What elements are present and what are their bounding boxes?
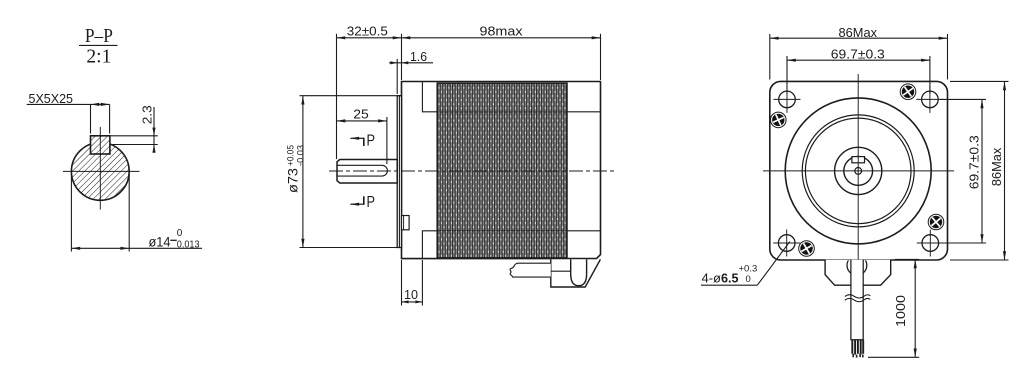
motor body outline	[402, 82, 601, 259]
raised ring inner	[805, 118, 911, 224]
section title fraction line	[79, 44, 118, 46]
svg-text:0.013: 0.013	[177, 240, 200, 251]
svg-text:P: P	[367, 133, 376, 150]
ext lines 86 right	[950, 80, 1009, 82]
ext line body rear	[600, 34, 602, 80]
dim 69.7 right arrows	[980, 99, 983, 108]
svg-text:2:1: 2:1	[86, 46, 111, 68]
dim 10 line	[402, 301, 423, 303]
rear endcap edge line bottom	[567, 230, 601, 232]
svg-text:P–P: P–P	[85, 25, 113, 47]
dim 86 top line	[770, 37, 948, 39]
dim 69.7 top arrows	[787, 59, 796, 62]
dia 73 ext line bottom	[300, 247, 400, 249]
dia 73 text (rotated)	[285, 145, 306, 193]
connector inner line	[551, 270, 571, 272]
flange square outline	[770, 81, 948, 260]
shaft keyway rounded end	[382, 165, 387, 176]
bearing hub circle	[835, 147, 882, 194]
dim 1.6 arrows (outside)	[390, 61, 397, 64]
dim 2.3 vertical line	[153, 107, 155, 153]
dim 1000 arrows	[914, 259, 917, 268]
dim 2.3 arrows	[152, 128, 155, 136]
dim 25 arrows	[337, 119, 346, 122]
dim 25 line	[337, 120, 387, 122]
shaft keyway notch	[852, 157, 865, 163]
key width dim arrows	[91, 103, 100, 106]
shaft	[337, 160, 397, 184]
front flange step bottom	[422, 231, 437, 259]
key height ext line bottom	[113, 144, 158, 146]
dia 14 extension lines	[70, 174, 72, 252]
svg-text:P: P	[367, 194, 376, 211]
pilot boss circle dia73	[785, 98, 931, 244]
cable band	[851, 260, 863, 340]
pilot boss inner line	[398, 96, 400, 248]
dim 69.7 top line	[787, 59, 930, 61]
mounting hole TR	[916, 86, 943, 113]
svg-text:6.5: 6.5	[721, 271, 739, 286]
ext line mounting face	[401, 34, 403, 80]
dim 69.7 right text (rotated)	[966, 135, 981, 189]
shaft keyway bottom line	[337, 175, 382, 177]
hole callout 4-dia6.5	[701, 242, 790, 286]
dia 14 dimension line	[71, 247, 202, 249]
motor axis centerline	[329, 170, 615, 172]
cover screw TR	[900, 84, 916, 100]
dim 98 arrows	[402, 36, 411, 39]
dim 2.3 text (rotated)	[140, 105, 155, 124]
cable connector trapezoid	[825, 260, 891, 285]
ext lines 69.7 top	[786, 56, 788, 94]
wire strand tips	[853, 354, 863, 358]
vertical centerline	[857, 74, 859, 264]
vertical centerline	[99, 127, 101, 210]
key width leader/dimension line	[27, 103, 110, 105]
dim 1000 line	[914, 259, 916, 357]
dim 1.6 line	[389, 62, 433, 64]
dim 86 top arrows	[770, 37, 779, 40]
cover screw BL	[799, 241, 815, 257]
dia 73 dim line	[302, 96, 304, 248]
small tab on front face	[402, 216, 410, 230]
key width extension lines	[90, 104, 92, 133]
dim 32 line	[337, 37, 402, 39]
center hole circle	[855, 168, 862, 175]
dim 32 arrows	[337, 36, 346, 39]
shaft keyway top line	[337, 164, 382, 166]
dim 86 right arrows	[1003, 81, 1006, 90]
svg-text:69.7±0.3: 69.7±0.3	[831, 47, 885, 62]
svg-text:69.7±0.3: 69.7±0.3	[966, 135, 981, 189]
svg-text:0: 0	[746, 274, 751, 285]
ext lines 69.7 right	[940, 98, 986, 100]
dim 10 arrows	[402, 300, 409, 303]
svg-text:1.6: 1.6	[410, 49, 427, 64]
svg-text:10: 10	[404, 287, 418, 302]
pilot boss plate	[397, 96, 401, 248]
cover screw BR	[928, 214, 944, 230]
svg-text:4-ø: 4-ø	[702, 271, 722, 286]
cable bushing U	[571, 259, 587, 285]
section mark P upper	[350, 133, 375, 150]
dim 69.7 right line	[981, 99, 983, 243]
shaft circle dia14	[844, 157, 873, 186]
horizontal centerline	[63, 170, 140, 172]
cable grommet dome (clipped below flange edge)	[847, 255, 867, 275]
dia 14 dim arrows	[71, 247, 80, 250]
section mark P lower	[350, 194, 375, 211]
fin block inner line top	[437, 111, 567, 113]
wire strands at cable end	[852, 340, 863, 355]
svg-text:1000: 1000	[893, 295, 908, 327]
raised ring outer	[802, 115, 914, 227]
key cross-section, hatched	[91, 136, 110, 154]
mounting hole BL	[773, 230, 800, 257]
ext lines 86 top	[769, 34, 771, 80]
svg-text:-0.03: -0.03	[295, 145, 306, 166]
dim 10 ext lines	[401, 260, 403, 306]
cable band going left	[510, 263, 551, 277]
dim 1000 ext lines	[895, 258, 919, 260]
ext line boss front	[396, 59, 398, 94]
dim 86Max right line	[1004, 81, 1006, 260]
horizontal centerline	[763, 170, 954, 172]
svg-text:98max: 98max	[480, 23, 523, 38]
stator fins block	[437, 83, 567, 258]
svg-text:ø73: ø73	[286, 168, 301, 193]
mounting hole TL	[774, 86, 801, 113]
rear endcap edge line top	[567, 111, 601, 113]
dia 14 tolerance minus dash	[170, 239, 177, 241]
fin block inner line bottom	[437, 230, 567, 232]
svg-text:0: 0	[177, 228, 183, 239]
mounting hole BR	[917, 230, 944, 257]
small tab inner line	[403, 216, 405, 230]
dim 1000 text (rotated)	[893, 295, 908, 327]
dim 98 line	[402, 37, 601, 39]
cable connector box under body	[551, 259, 601, 287]
front flange step top	[422, 82, 437, 112]
svg-text:32±0.5: 32±0.5	[347, 23, 388, 38]
svg-text:+0.3: +0.3	[739, 264, 758, 275]
svg-text:25: 25	[353, 107, 369, 122]
dim 25 right ext line	[386, 117, 388, 164]
svg-text:86Max: 86Max	[989, 147, 1004, 186]
dim 86Max right text (rotated)	[989, 147, 1004, 186]
key height ext line top	[110, 135, 158, 137]
svg-text:2.3: 2.3	[140, 105, 155, 124]
dia 73 arrows	[301, 96, 304, 105]
cover screw TL	[771, 112, 787, 128]
ext line shaft tip (32/25 shared)	[336, 34, 338, 159]
shaft section circle, hatched	[71, 143, 129, 201]
svg-text:ø14: ø14	[149, 234, 171, 250]
dia 73 ext line top	[300, 95, 402, 97]
cable break wavy lines	[845, 295, 870, 298]
